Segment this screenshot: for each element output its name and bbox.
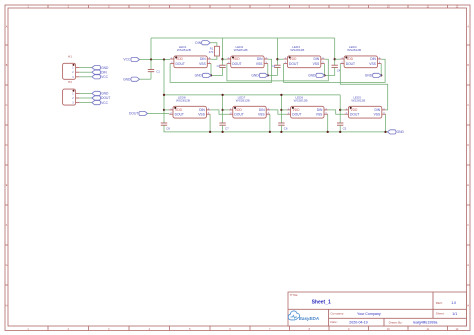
svg-text:WS2812B: WS2812B [234, 48, 248, 52]
connector H2 [63, 80, 80, 105]
svg-text:Sheet:: Sheet: [436, 312, 445, 316]
svg-text:F: F [467, 224, 469, 227]
wire VCC rail riser at x=151 [150, 38, 152, 60]
svg-text:C3: C3 [271, 64, 275, 68]
wire VCC flag to LED1 VDD [140, 59, 171, 61]
svg-text:DOUT: DOUT [129, 112, 138, 116]
svg-text:H1: H1 [68, 54, 72, 58]
wire H1 pin1 to net flag [79, 67, 92, 69]
svg-text:DIN: DIN [200, 57, 206, 61]
node LED5 VSS/GND bus junction [384, 131, 386, 133]
node LED6 VSS/GND bus junction [327, 131, 329, 133]
wire VDD feed LED3 [277, 58, 283, 60]
svg-text:EasyEDA: EasyEDA [299, 316, 319, 321]
svg-text:G: G [6, 264, 8, 267]
net flag VCC (supply input) [123, 57, 139, 61]
capacitor C8 [161, 123, 170, 130]
wire LED6 DOUT to LED7 DIN [270, 110, 287, 114]
svg-text:B: B [6, 64, 8, 67]
wire GND flag to C1 [140, 78, 152, 80]
wire VCC drop at top gap 1 [222, 38, 224, 65]
svg-text:DOUT: DOUT [292, 112, 301, 116]
svg-text:VCC: VCC [101, 101, 109, 105]
svg-text:DIN: DIN [370, 57, 376, 61]
svg-text:R1: R1 [210, 47, 214, 51]
svg-text:DIN: DIN [101, 70, 107, 74]
svg-text:VSS: VSS [369, 62, 376, 66]
svg-text:DOUT: DOUT [289, 62, 298, 66]
svg-text:DIN: DIN [195, 41, 201, 45]
EasyEDA logo [288, 311, 319, 321]
wire LED3 VSS to GND [324, 64, 326, 76]
svg-text:Sheet_1: Sheet_1 [312, 300, 331, 306]
node LED4 GND junction [380, 74, 382, 76]
capacitor C2 [217, 64, 226, 68]
net flag GND (LED4) [365, 73, 381, 77]
svg-text:DOUT: DOUT [175, 112, 184, 116]
svg-text:GND: GND [308, 74, 316, 78]
svg-text:D: D [467, 144, 469, 147]
net flag GND (LED1) [195, 73, 211, 77]
svg-text:E: E [6, 184, 8, 187]
svg-text:B: B [467, 64, 469, 67]
LED1 WS2812B [170, 45, 211, 68]
node LED8 VDD junction [163, 109, 165, 111]
node LED1 GND junction [210, 74, 212, 76]
svg-text:2020-04-19: 2020-04-19 [349, 320, 367, 324]
svg-text:F: F [6, 224, 8, 227]
net flag DIN (H1 pin2) [92, 70, 107, 74]
svg-text:GND: GND [101, 92, 109, 96]
node LED2 GND junction [267, 74, 269, 76]
wire VCC top rail [151, 37, 335, 39]
wire H2 pin1 to net flag [79, 92, 92, 94]
title block [288, 292, 467, 326]
wire DIN flag to R1 [210, 43, 217, 47]
svg-text:GND: GND [251, 74, 259, 78]
net flag DOUT (data output) [129, 111, 147, 115]
wire LED8 VSS to GND bus [209, 114, 211, 132]
wire H1 pin2 to net flag [79, 71, 92, 73]
svg-text:VDD: VDD [233, 57, 241, 61]
wire VCC drop at top gap 3 [334, 38, 336, 65]
wire VCC drop at top gap 2 [276, 38, 278, 65]
node LED6 VDD junction [280, 109, 282, 111]
svg-text:VDD: VDD [289, 57, 297, 61]
svg-text:C6: C6 [284, 126, 288, 130]
svg-text:C5: C5 [343, 126, 347, 130]
svg-text:VSS: VSS [199, 62, 206, 66]
svg-text:WS2812B: WS2812B [347, 48, 361, 52]
svg-text:WS2812B: WS2812B [176, 99, 190, 103]
net flag GND (LED3) [308, 73, 324, 77]
capacitor C6 [278, 123, 288, 130]
wire VCC drop at bottom gap 3 [339, 95, 341, 123]
svg-text:DOUT: DOUT [101, 96, 110, 100]
wire LED7 DOUT to LED8 DIN [210, 110, 229, 114]
svg-text:GND: GND [397, 130, 405, 134]
wire C5 bottom to GND bus [339, 125, 341, 132]
svg-text:C: C [6, 104, 8, 107]
svg-text:realg4life1999a: realg4life1999a [413, 320, 438, 324]
svg-text:DOUT: DOUT [176, 62, 185, 66]
node VCC drop junction gap 2 [276, 58, 278, 60]
svg-text:WS2812B: WS2812B [236, 99, 250, 103]
svg-text:GND: GND [195, 74, 203, 78]
wire LED4 DOUT to LED5 DIN [340, 64, 387, 110]
resistor R1 [209, 46, 220, 56]
wire H2 pin2 to net flag [79, 97, 92, 99]
net flag GND (input side) [123, 77, 139, 81]
svg-text:WS2812B: WS2812B [177, 48, 191, 52]
node VCC drop junction gap 3 [334, 58, 336, 60]
svg-text:TITLE:: TITLE: [290, 293, 299, 297]
svg-text:VSS: VSS [313, 62, 320, 66]
wire LED5 VDD feed [340, 109, 344, 111]
svg-text:GND: GND [365, 74, 373, 78]
LED3 WS2812B [284, 45, 325, 68]
svg-text:1.0: 1.0 [451, 301, 456, 305]
LED8 WS2812B [169, 95, 210, 118]
wire LED6 VDD feed [281, 109, 286, 111]
wire LED7 VDD feed [223, 109, 229, 111]
svg-text:A: A [6, 26, 8, 29]
node cap/GND bus junction [339, 131, 341, 133]
svg-text:DOUT: DOUT [234, 112, 243, 116]
svg-text:E: E [467, 184, 469, 187]
wire VCC bottom rail [164, 94, 340, 96]
svg-text:C: C [467, 104, 469, 107]
svg-text:470: 470 [209, 50, 214, 54]
node cap/GND bus junction [221, 131, 223, 133]
svg-text:1/1: 1/1 [452, 312, 457, 316]
capacitor C1 [148, 70, 160, 74]
svg-text:DIN: DIN [257, 57, 263, 61]
wire GND bus (bottom row) [164, 131, 388, 133]
svg-text:D: D [6, 144, 8, 147]
svg-text:DOUT: DOUT [350, 112, 359, 116]
net flag VCC (H2 pin3) [92, 101, 109, 105]
capacitor C1 leads [150, 60, 152, 70]
node LED7 VSS/GND bus junction [269, 131, 271, 133]
net flag GND (bottom row) [387, 130, 404, 134]
wire LED7 VSS to GND bus [269, 114, 271, 132]
svg-text:VSS: VSS [198, 112, 205, 116]
svg-text:VSS: VSS [256, 62, 263, 66]
wire VDD feed LED2 [223, 58, 227, 60]
svg-text:C1: C1 [156, 70, 160, 74]
svg-text:VCC: VCC [123, 58, 131, 62]
wire LED8 VDD feed [164, 109, 169, 111]
wire C8 bottom to GND bus [163, 125, 165, 132]
wire VCC vertical feed to bottom row [163, 60, 165, 124]
svg-text:Drawn By:: Drawn By: [389, 320, 403, 324]
LED6 WS2812B [287, 95, 328, 118]
svg-text:H: H [467, 305, 469, 308]
svg-text:VSS: VSS [374, 112, 381, 116]
connector H1 [63, 54, 80, 79]
wire LED1 VSS to GND [210, 64, 212, 76]
node cap/GND bus junction [280, 131, 282, 133]
svg-text:REV:: REV: [436, 301, 443, 305]
wire LED3 DOUT to LED4 DIN [284, 59, 386, 82]
svg-text:GND: GND [123, 77, 131, 81]
net flag VCC (H1 pin3) [92, 75, 109, 79]
wire LED4 VSS to GND [380, 64, 382, 76]
svg-text:DOUT: DOUT [346, 62, 355, 66]
node VCC bottom rail junction 1 [221, 94, 223, 96]
LED7 WS2812B [229, 95, 270, 118]
wire LED6 VSS to GND bus [327, 114, 329, 132]
wire C3 bottom to GND [268, 67, 278, 75]
node VCC/C1 junction [150, 58, 152, 60]
wire LED2 DOUT to LED3 DIN [227, 59, 328, 81]
wire LED1 DOUT to LED2 DIN [170, 59, 272, 82]
node LED8 VSS/GND bus junction [209, 131, 211, 133]
svg-text:C2: C2 [217, 64, 221, 68]
svg-text:A: A [467, 26, 469, 29]
node VCC bottom rail junction 2 [280, 94, 282, 96]
wire LED2 VSS to GND [267, 64, 269, 76]
wire VCC drop at bottom gap 1 [222, 95, 224, 123]
svg-text:WS2812B: WS2812B [290, 48, 304, 52]
wire VDD feed LED4 [335, 58, 341, 60]
svg-text:VSS: VSS [316, 112, 323, 116]
svg-text:H: H [6, 305, 8, 308]
svg-text:GND: GND [101, 66, 109, 70]
net flag DIN (data input) [195, 41, 210, 45]
wire C2 bottom to GND [211, 67, 223, 75]
svg-text:H2: H2 [68, 80, 72, 84]
svg-text:Date:: Date: [330, 320, 337, 324]
svg-text:DOUT: DOUT [232, 62, 241, 66]
wire VCC drop at bottom gap 2 [280, 95, 282, 123]
svg-text:VCC: VCC [101, 75, 109, 79]
capacitor C3 [271, 64, 280, 68]
wire R1 to LED1 DIN [211, 56, 217, 59]
net flag GND (H1 pin1) [92, 66, 109, 70]
net flag GND (LED2) [251, 73, 267, 77]
svg-text:WS2812B: WS2812B [351, 99, 365, 103]
svg-text:DIN: DIN [314, 57, 320, 61]
wire LED5 VSS to GND bus [385, 114, 387, 132]
svg-text:VDD: VDD [346, 57, 354, 61]
node VCC drop junction gap 1 [221, 58, 223, 60]
wire C7 bottom to GND bus [222, 125, 224, 132]
node VCC feed/bottom rail junction [163, 94, 165, 96]
node LED3 GND junction [323, 74, 325, 76]
capacitor C7 [219, 123, 229, 130]
LED5 WS2812B [345, 95, 386, 118]
LED4 WS2812B [340, 45, 381, 68]
svg-text:VSS: VSS [258, 112, 265, 116]
svg-text:WS2812B: WS2812B [294, 99, 308, 103]
svg-text:Company:: Company: [330, 312, 344, 316]
node VCC feed to bottom row [163, 58, 165, 60]
svg-text:C7: C7 [225, 126, 229, 130]
LED2 WS2812B [227, 45, 268, 68]
svg-text:Your Company: Your Company [357, 312, 381, 316]
node LED5 VDD junction [339, 109, 341, 111]
net flag GND (H2 pin1) [92, 91, 109, 95]
wire C4 bottom to GND [325, 67, 335, 75]
capacitor C4 [332, 65, 341, 72]
net flag DOUT (H2 pin2) [92, 96, 111, 100]
wire H1 pin3 to net flag [79, 76, 92, 78]
wire C6 bottom to GND bus [280, 125, 282, 132]
capacitor C5 [337, 123, 347, 130]
svg-text:VDD: VDD [176, 57, 184, 61]
svg-text:G: G [467, 264, 469, 267]
node LED7 VDD junction [221, 109, 223, 111]
wire LED5 DOUT to LED6 DIN [328, 110, 345, 114]
wire DOUT flag to LED8 DOUT [148, 113, 170, 115]
svg-text:C8: C8 [166, 126, 170, 130]
wire H2 pin3 to net flag [79, 102, 92, 104]
